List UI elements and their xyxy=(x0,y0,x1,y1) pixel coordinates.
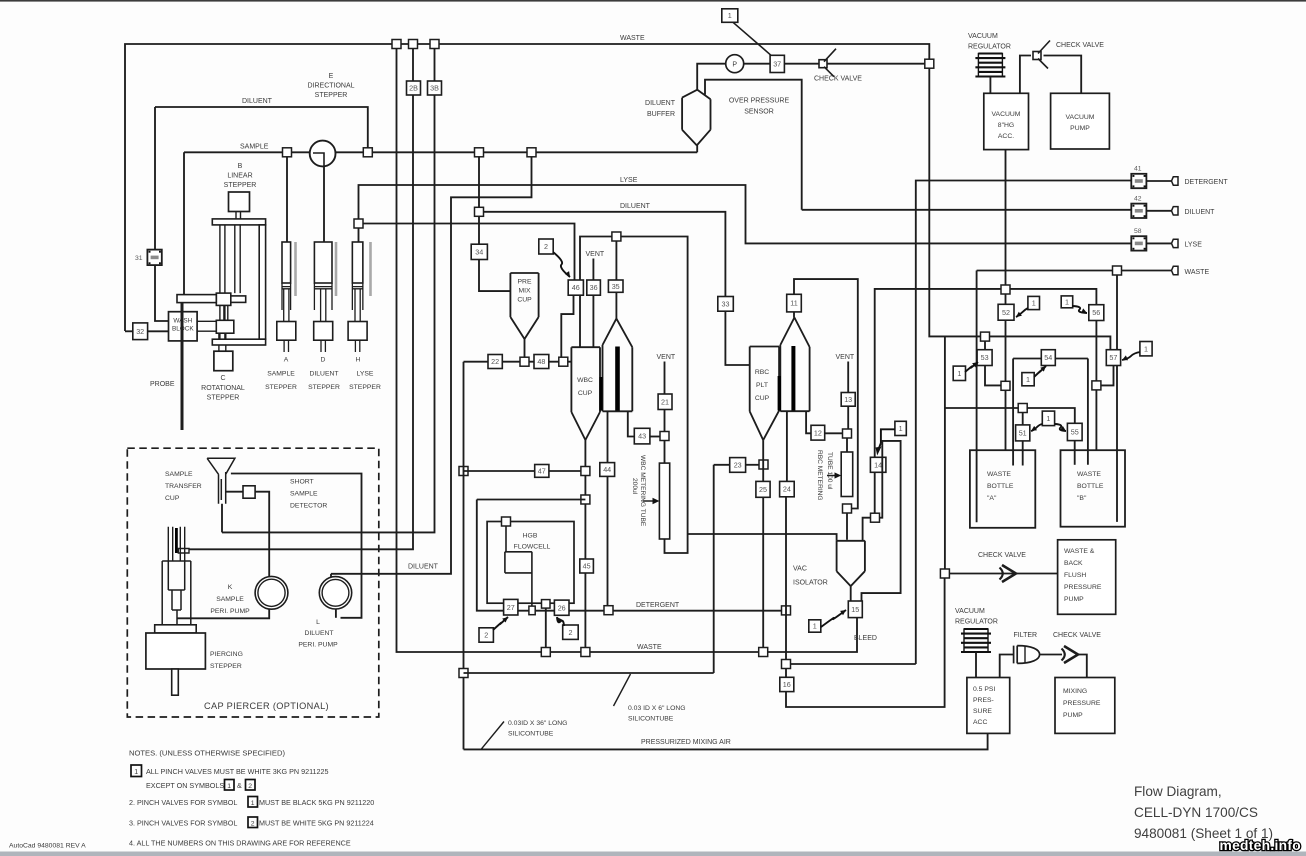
wire 499 line xyxy=(477,500,586,611)
svg-text:ISOLATOR: ISOLATOR xyxy=(793,580,828,587)
syringe H lyse stepper xyxy=(352,242,363,283)
wire funnel stem detector xyxy=(226,491,243,493)
svg-text:BOTTLE: BOTTLE xyxy=(1077,483,1104,490)
svg-text:HGB: HGB xyxy=(523,533,538,540)
wire 52 down xyxy=(1005,320,1007,450)
svg-text:STEPPER: STEPPER xyxy=(308,384,340,391)
pinch valve 41 xyxy=(1131,174,1146,188)
node waste/1117 xyxy=(1113,266,1122,275)
node 786/664 xyxy=(782,660,791,669)
svg-text:8"HG: 8"HG xyxy=(998,122,1014,129)
wire regulator2 to acc xyxy=(975,653,977,678)
svg-text:DILUENT: DILUENT xyxy=(304,630,333,637)
valve 53 xyxy=(977,350,992,366)
wire funnel to detector line xyxy=(231,474,362,618)
node detergent/608 xyxy=(604,606,613,615)
filter symbol xyxy=(1014,646,1040,664)
piercing housing xyxy=(162,561,191,625)
B carriage right tab xyxy=(231,296,246,303)
wire 41 to connector xyxy=(1146,180,1171,182)
wire filter to cv xyxy=(1040,654,1062,656)
svg-text:26: 26 xyxy=(558,603,566,612)
wire piercing-stepper line riser x413 xyxy=(189,44,413,549)
probe line xyxy=(181,303,184,430)
svg-text:MIXING: MIXING xyxy=(1063,688,1087,695)
waste back flush pump box xyxy=(1058,540,1116,615)
wire detergent riser x916 xyxy=(916,181,1132,665)
svg-text:ROTATIONAL: ROTATIONAL xyxy=(201,385,245,392)
svg-text:1: 1 xyxy=(227,783,231,790)
squiggle 2a to 46 xyxy=(553,252,570,277)
svg-text:PRE: PRE xyxy=(518,279,532,286)
valve 43 xyxy=(634,428,650,444)
piercing base flange xyxy=(155,625,197,633)
wire A syringe riser xyxy=(286,152,288,242)
valve 55 xyxy=(1067,423,1082,440)
svg-text:47: 47 xyxy=(538,467,546,476)
wire waste dip tube B xyxy=(1116,275,1118,522)
WBC metering funnel xyxy=(603,319,633,412)
svg-text:VACUUM: VACUUM xyxy=(992,111,1021,118)
valve 1 ref a xyxy=(1028,296,1040,309)
B frame right column xyxy=(259,225,265,339)
B lower stem xyxy=(219,333,226,339)
node waste/763 xyxy=(759,648,768,657)
node diluent/479 xyxy=(475,207,484,216)
wire sample line xyxy=(184,151,310,153)
svg-text:27: 27 xyxy=(507,603,515,612)
svg-text:53: 53 xyxy=(981,353,989,362)
wire frame left riser x945 xyxy=(944,336,946,569)
node 1096/385 xyxy=(1092,381,1101,390)
squiggle 1d to 54 xyxy=(1034,366,1046,377)
wire node531 drop to L-pump diluent line xyxy=(331,152,532,574)
wire waste bottom line with riser x396.5 xyxy=(397,44,858,652)
node 616/236 xyxy=(612,232,621,241)
connector DETERGENT xyxy=(1172,177,1179,185)
RBC metering black column xyxy=(791,346,795,411)
svg-text:SAMPLE: SAMPLE xyxy=(216,596,244,603)
svg-text:12: 12 xyxy=(814,428,822,437)
wire 23 left elbow down xyxy=(714,465,730,673)
node 463/471 xyxy=(459,467,468,476)
note1 symbol box xyxy=(131,765,142,777)
svg-text:WBC: WBC xyxy=(577,377,593,384)
node 875/517 xyxy=(871,513,880,522)
svg-text:VACUUM: VACUUM xyxy=(968,33,998,40)
wire 57 elbow to node xyxy=(1101,366,1114,386)
B stepper lead screw top xyxy=(236,212,241,220)
svg-text:PERI. PUMP: PERI. PUMP xyxy=(298,642,338,649)
svg-text:"A": "A" xyxy=(987,495,997,502)
svg-text:1: 1 xyxy=(1032,299,1036,308)
WBC cup xyxy=(571,347,600,440)
valve 21 xyxy=(658,394,672,410)
svg-text:57: 57 xyxy=(1109,353,1117,362)
node detergent/786 xyxy=(782,606,791,615)
bottom bar xyxy=(0,852,1306,856)
svg-text:LYSE: LYSE xyxy=(620,177,638,184)
wire detector to K pump xyxy=(255,492,269,577)
svg-text:SAMPLE: SAMPLE xyxy=(240,144,269,151)
svg-text:DILUENT: DILUENT xyxy=(309,371,338,378)
svg-text:MUST BE BLACK 5KG PN 9211220: MUST BE BLACK 5KG PN 9211220 xyxy=(259,798,374,807)
pinch valve 31 xyxy=(147,250,161,266)
valve 2 ref box a xyxy=(539,239,553,254)
svg-text:PIERCING: PIERCING xyxy=(210,651,243,658)
svg-text:16: 16 xyxy=(783,680,791,689)
wire 985 to 53 xyxy=(984,341,986,350)
valve 52 xyxy=(998,304,1014,320)
squiggle 1e to 57 xyxy=(1122,352,1140,360)
svg-text:WASTE: WASTE xyxy=(620,35,645,42)
wire sample/diluent line mid xyxy=(335,151,697,153)
node 1022/408 xyxy=(1018,404,1027,413)
svg-text:BUFFER: BUFFER xyxy=(647,111,675,118)
valve 1 ref c xyxy=(953,366,965,380)
syringe A sample stepper xyxy=(282,242,291,283)
connector DILUENT xyxy=(1172,207,1179,215)
valve 1 ref f xyxy=(1042,411,1054,426)
wire valve35 to WBC metering tube apex xyxy=(615,292,617,318)
svg-text:E: E xyxy=(329,73,334,80)
node 585/471 xyxy=(581,467,590,476)
svg-text:33: 33 xyxy=(722,300,730,309)
svg-text:STEPPER: STEPPER xyxy=(315,92,348,99)
svg-text:55: 55 xyxy=(1071,428,1079,437)
cap piercer dashed box xyxy=(127,448,378,717)
valve 1 ref box near 14 xyxy=(895,421,906,435)
pinch valve 42 xyxy=(1131,204,1146,218)
svg-text:LYSE: LYSE xyxy=(1185,242,1203,249)
B lead screw xyxy=(235,225,240,293)
svg-text:CUP: CUP xyxy=(755,395,770,402)
svg-text:P: P xyxy=(732,62,737,69)
svg-text:TUBE 100 ul: TUBE 100 ul xyxy=(826,452,833,490)
wire 51 into bottle xyxy=(1022,441,1024,466)
wire 14 to node875 xyxy=(874,472,876,513)
valve 25 xyxy=(756,481,770,497)
svg-text:2B: 2B xyxy=(409,84,418,93)
node waste/434 xyxy=(430,40,439,49)
svg-text:DILUENT: DILUENT xyxy=(620,203,651,210)
svg-text:ALL PINCH VALVES MUST BE WHITE: ALL PINCH VALVES MUST BE WHITE 3KG PN 92… xyxy=(146,767,329,776)
valve 57 xyxy=(1106,350,1120,366)
svg-text:WBC METERING TUBE: WBC METERING TUBE xyxy=(639,455,646,527)
node 985/336 xyxy=(981,332,990,341)
wire valve31 to wash block xyxy=(155,107,169,321)
wire L pump bottom xyxy=(335,609,337,618)
svg-text:31: 31 xyxy=(135,255,143,262)
valve 1 ref e xyxy=(1140,342,1152,356)
squiggle 1c to 53 xyxy=(965,362,978,372)
svg-text:"B": "B" xyxy=(1077,495,1087,502)
node premix/row xyxy=(520,357,529,366)
node 763/464 xyxy=(759,460,768,469)
wire detergent segment a xyxy=(518,610,555,612)
wire 786-664 to 916 xyxy=(786,663,916,665)
L peri pump xyxy=(319,577,351,609)
wire 55 into bottle xyxy=(1074,441,1076,465)
valve 23 xyxy=(730,458,746,473)
diluent buffer vessel xyxy=(682,90,710,146)
piercing bar to line xyxy=(178,549,189,554)
svg-text:24: 24 xyxy=(783,485,791,494)
svg-text:BLEED: BLEED xyxy=(854,635,877,642)
B stepper motor box xyxy=(229,192,250,212)
svg-text:DILUENT: DILUENT xyxy=(1185,209,1216,216)
valve 47 xyxy=(535,465,549,478)
svg-text:DILUENT: DILUENT xyxy=(408,564,439,571)
svg-text:1: 1 xyxy=(1065,298,1069,307)
svg-text:32: 32 xyxy=(136,327,144,336)
svg-text:VACUUM: VACUUM xyxy=(1066,114,1095,121)
wire node875 right loop to 15 xyxy=(862,441,901,601)
svg-text:58: 58 xyxy=(1134,228,1142,235)
svg-text:Flow Diagram,: Flow Diagram, xyxy=(1134,784,1222,799)
svg-text:VENT: VENT xyxy=(657,354,676,361)
svg-text:54: 54 xyxy=(1044,353,1052,362)
wire vent13 xyxy=(847,362,849,393)
svg-text:1: 1 xyxy=(1046,414,1050,423)
svg-text:SHORT: SHORT xyxy=(290,479,314,486)
svg-text:ACC.: ACC. xyxy=(998,133,1014,140)
wire ref1 elbow xyxy=(881,429,895,443)
squiggle 1a to 52 xyxy=(1016,308,1028,317)
svg-text:WASTE: WASTE xyxy=(1185,269,1210,276)
svg-text:RBC: RBC xyxy=(755,369,769,376)
svg-text:VENT: VENT xyxy=(836,354,855,361)
svg-text:STEPPER: STEPPER xyxy=(207,395,240,402)
wire 23 to node763 xyxy=(746,464,760,466)
squiggle 1b to 56 xyxy=(1072,306,1087,313)
svg-text:0.03 ID X 6" LONG: 0.03 ID X 6" LONG xyxy=(628,705,686,712)
wire mixing air line xyxy=(463,362,465,750)
RBC metering tube 100ul column xyxy=(841,452,853,497)
svg-text:VENT: VENT xyxy=(586,251,605,258)
mixing pressure pump box xyxy=(1055,678,1115,734)
svg-text:K: K xyxy=(228,584,233,591)
svg-text:VACUUM: VACUUM xyxy=(955,608,985,615)
wire 14 header xyxy=(875,289,1097,457)
WBC metering tube 200ul column xyxy=(659,463,669,539)
node sample/531 junction xyxy=(527,148,536,157)
svg-text:13: 13 xyxy=(844,395,852,404)
valve 11 xyxy=(787,294,802,312)
svg-text:STEPPER: STEPPER xyxy=(224,182,257,189)
svg-text:DIRECTIONAL: DIRECTIONAL xyxy=(307,83,354,90)
valve 37 xyxy=(770,55,784,72)
wire diluent buffer bottom drop xyxy=(696,145,698,152)
vac isolator vessel xyxy=(837,541,865,586)
wire D syringe riser from E valve xyxy=(323,166,325,242)
svg-text:14: 14 xyxy=(874,460,882,469)
piercing needle rods xyxy=(168,527,184,561)
svg-text:ACC: ACC xyxy=(973,719,987,726)
svg-text:CHECK VALVE: CHECK VALVE xyxy=(978,552,1026,559)
valve 15 xyxy=(848,601,862,618)
valve 2 ref box c xyxy=(563,625,579,639)
wire 13 to node xyxy=(847,406,849,429)
svg-text:B: B xyxy=(238,163,243,170)
HGB inner path xyxy=(505,526,532,606)
valve 1 ref box top xyxy=(722,9,738,22)
svg-text:REGULATOR: REGULATOR xyxy=(955,619,998,626)
wire waste top manifold / right cluster feed xyxy=(125,44,1110,350)
B carriage block xyxy=(216,293,231,305)
C rotational stepper box xyxy=(214,351,233,371)
wire 45 to waste xyxy=(584,573,586,652)
svg-text:PUMP: PUMP xyxy=(1064,596,1084,603)
wire diluent top line to valve 31 and E-stepper drop xyxy=(155,107,368,152)
svg-text:RBC METERING: RBC METERING xyxy=(816,450,823,501)
svg-text:BACK: BACK xyxy=(1064,560,1083,567)
node waste/413 xyxy=(409,40,418,49)
wire P line xyxy=(697,64,925,90)
wire L-pump top stub xyxy=(330,574,332,577)
svg-text:1: 1 xyxy=(813,622,817,631)
wire 11 to apex xyxy=(793,312,795,318)
squiggle 1 to 15 xyxy=(821,610,846,627)
wire frame bottom xyxy=(945,408,1075,423)
squiggle 2b to 27 xyxy=(493,617,508,630)
WBC cup-side black column xyxy=(599,377,602,411)
piercing stepper body xyxy=(146,633,206,669)
valve 35 xyxy=(608,280,623,292)
waste bottle A xyxy=(970,450,1035,528)
node 1006/289 xyxy=(1001,285,1010,294)
wire apex to 15 xyxy=(850,586,852,601)
arrow to 100ul tube xyxy=(827,475,836,477)
wire over pressure sensor loop xyxy=(705,80,802,210)
wire 12 to node847 xyxy=(825,432,843,434)
svg-text:PRESSURE: PRESSURE xyxy=(1063,700,1101,707)
node 664/436 xyxy=(660,432,669,441)
RBC PLT cup xyxy=(750,347,779,441)
svg-text:2. PINCH VALVES FOR SYMBOL: 2. PINCH VALVES FOR SYMBOL xyxy=(129,798,237,807)
wire 46 straight to cup xyxy=(579,295,581,347)
svg-text:0.03ID X 36" LONG: 0.03ID X 36" LONG xyxy=(508,720,567,727)
node hgb-bottom/546 xyxy=(542,600,551,609)
svg-text:H: H xyxy=(356,357,361,364)
node row/563 xyxy=(559,357,568,366)
node HGB top xyxy=(502,517,511,526)
svg-text:CUP: CUP xyxy=(165,495,180,502)
vacuum pump box xyxy=(1051,93,1110,149)
wire rbc apex to 25 to waste xyxy=(762,440,764,652)
node 585/499 xyxy=(581,495,590,504)
check valve chevron bottom xyxy=(1064,646,1078,663)
svg-text:REGULATOR: REGULATOR xyxy=(968,44,1011,51)
svg-text:1: 1 xyxy=(728,11,732,20)
svg-text:23: 23 xyxy=(734,461,742,470)
wire transfer-cup-stem line riser x434.5 xyxy=(222,44,435,532)
check valve top right xyxy=(1033,52,1041,60)
svg-text:FILTER: FILTER xyxy=(1014,632,1038,639)
svg-text:56: 56 xyxy=(1092,308,1100,317)
wire valve row xyxy=(464,361,572,363)
wire mixing air horizontal xyxy=(464,672,714,674)
svg-text:BOTTLE: BOTTLE xyxy=(987,483,1014,490)
wire 125 to valve 32 xyxy=(125,330,133,332)
wire 46/35 header xyxy=(580,237,688,554)
valve 13 xyxy=(841,393,855,407)
wire 24 down xyxy=(785,497,787,664)
svg-text:PLT: PLT xyxy=(756,382,768,389)
wire check valve line xyxy=(949,573,1057,575)
wire acc bottom riser xyxy=(1005,150,1007,305)
valve 32 box xyxy=(133,323,148,340)
svg-text:1: 1 xyxy=(1144,344,1148,353)
svg-text:48: 48 xyxy=(537,357,545,366)
svg-text:LYSE: LYSE xyxy=(357,371,374,378)
wire 43 to node664 xyxy=(650,436,660,438)
svg-text:4. ALL THE NUMBERS ON THIS D: 4. ALL THE NUMBERS ON THIS DRAWING ARE F… xyxy=(129,839,351,848)
svg-text:STEPPER: STEPPER xyxy=(349,384,381,391)
svg-text:42: 42 xyxy=(1134,196,1142,203)
svg-text:2: 2 xyxy=(484,631,488,640)
WBC metering black column xyxy=(615,347,620,411)
valve 56 xyxy=(1089,305,1104,321)
arrow to 200ul tube xyxy=(643,500,654,502)
B lower block xyxy=(216,320,234,333)
wire 44 down to detergent node xyxy=(607,476,609,606)
wire H-node branch to valve 46 xyxy=(359,224,575,281)
svg-text:PUMP: PUMP xyxy=(1070,125,1090,132)
valve 33 xyxy=(718,297,734,312)
valve 1 ref d xyxy=(1022,373,1034,386)
svg-text:FLOWCELL: FLOWCELL xyxy=(514,544,551,551)
wire 32 to wash block xyxy=(148,330,169,332)
node 1006/385 xyxy=(1001,381,1010,390)
svg-text:DILUENT: DILUENT xyxy=(645,100,676,107)
svg-text:A: A xyxy=(284,357,289,364)
svg-text:45: 45 xyxy=(583,562,591,571)
vacuum regulator bottom symbol xyxy=(964,628,988,630)
node H lyse junction xyxy=(354,219,363,228)
svg-text:CHECK VALVE: CHECK VALVE xyxy=(814,76,862,83)
wire detergent segment b xyxy=(569,610,786,612)
leader 0.03x6 xyxy=(614,674,631,706)
svg-text:SILICONTUBE: SILICONTUBE xyxy=(628,716,674,723)
svg-text:52: 52 xyxy=(1002,308,1010,317)
valve 1 ref box near 15 xyxy=(809,620,821,632)
node sample/A junction xyxy=(283,148,292,157)
wire premix apex to node xyxy=(524,339,526,357)
wire regulator to acc xyxy=(989,77,991,93)
svg-text:&: & xyxy=(237,781,242,790)
svg-text:15: 15 xyxy=(851,605,859,614)
svg-text:D: D xyxy=(321,357,326,364)
valve 26 xyxy=(554,600,569,615)
wire waste out xyxy=(977,270,1172,272)
svg-text:2: 2 xyxy=(544,242,548,251)
svg-text:11: 11 xyxy=(790,299,797,308)
wire node to rbc column xyxy=(846,438,848,452)
check valve chevron mid xyxy=(1002,565,1016,582)
svg-text:CUP: CUP xyxy=(578,390,593,397)
wire 53 elbow to node xyxy=(985,366,1001,386)
diag 1 to 37 xyxy=(733,22,771,55)
junction square 27/26 xyxy=(529,606,535,615)
wire cv to mixing pump xyxy=(1079,655,1087,678)
wire valve33 to RBC cup xyxy=(725,311,749,365)
svg-text:PRESSURIZED MIXING AIR: PRESSURIZED MIXING AIR xyxy=(641,739,731,746)
svg-text:3B: 3B xyxy=(430,84,439,93)
C stepper shaft xyxy=(219,345,226,351)
wire K pump bottom xyxy=(177,609,269,618)
wire 42 to connector xyxy=(1146,210,1171,212)
